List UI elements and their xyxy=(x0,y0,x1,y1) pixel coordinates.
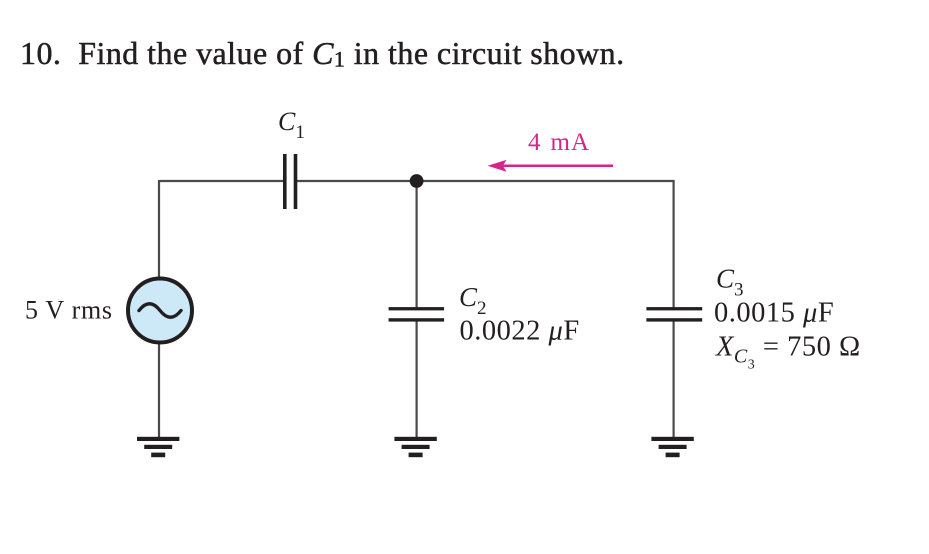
ac source V1 xyxy=(128,279,192,343)
ground middle xyxy=(394,437,436,457)
wire middle branch upper xyxy=(416,181,418,309)
svg-text:0.0015 μF: 0.0015 μF xyxy=(714,298,834,329)
wire top-left segment xyxy=(159,180,284,182)
current arrow 4 mA xyxy=(488,160,614,172)
wire left branch upper xyxy=(158,180,160,278)
ground right xyxy=(651,437,693,457)
wire middle branch lower xyxy=(416,319,418,438)
wire left branch lower xyxy=(158,343,160,438)
svg-text:0.0022 μF: 0.0022 μF xyxy=(460,316,580,347)
wire right branch lower xyxy=(672,319,674,438)
node A junction dot xyxy=(410,174,424,188)
capacitor C2 xyxy=(389,307,445,322)
svg-text:5 V rms: 5 V rms xyxy=(25,296,113,325)
capacitor C3 xyxy=(646,307,702,322)
wire top-right segment xyxy=(296,180,674,182)
wire right branch upper xyxy=(672,180,674,309)
ground left xyxy=(137,437,179,457)
svg-text:10. Find the value of C1 in t: 10. Find the value of C1 in the circuit … xyxy=(20,35,625,72)
capacitor C1 xyxy=(283,154,297,209)
svg-text:4mA: 4mA xyxy=(528,129,590,156)
